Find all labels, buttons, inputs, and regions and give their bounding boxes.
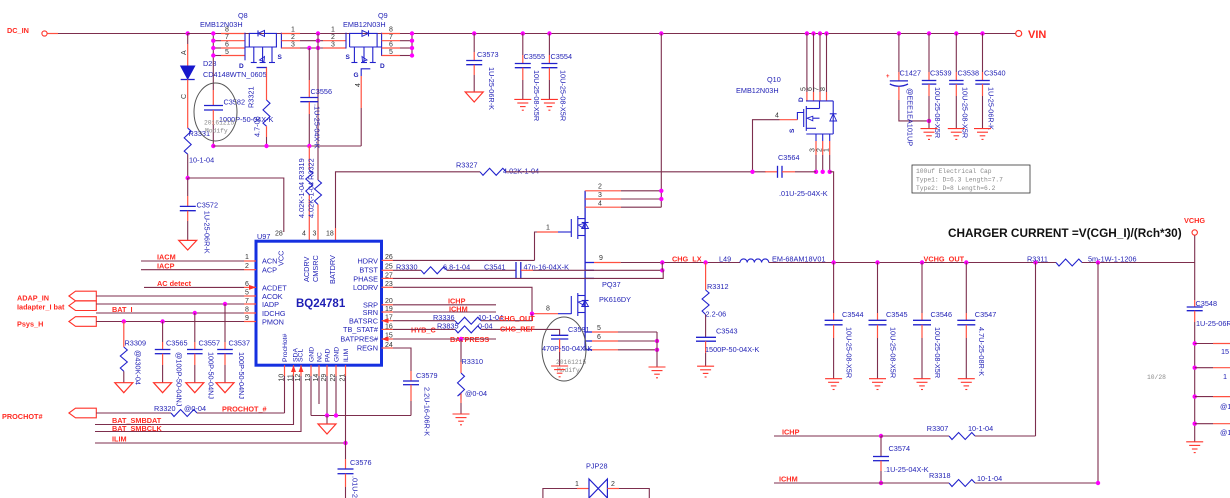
svg-text:7: 7 (389, 34, 393, 41)
svg-text:5: 5 (225, 49, 229, 56)
svg-text:C3564: C3564 (778, 153, 800, 162)
Q9 symbol body (350, 33, 362, 47)
ground under C3540 (974, 129, 991, 140)
svg-text:+: + (886, 74, 890, 80)
svg-text:BTST: BTST (359, 266, 378, 275)
svg-text:2: 2 (291, 34, 295, 41)
svg-text:C3540: C3540 (984, 69, 1006, 78)
PQ37 common blue bus (584, 191, 586, 350)
resistor R3321 4.7-06 (247, 86, 271, 146)
node BAT_I net (96, 305, 244, 314)
svg-text:NC: NC (317, 352, 324, 362)
PQ37 pin 8 (lower gate) (532, 313, 558, 315)
svg-text:.01U-25-: .01U-25- (351, 476, 360, 498)
capacitor C3582 1000P-50-04X-K (194, 56, 273, 147)
Q10 source bracket (806, 133, 833, 135)
svg-text:VCC: VCC (277, 251, 286, 266)
capacitor C3556 .1U-25-04X-K (300, 46, 332, 149)
svg-text:HDRV: HDRV (357, 256, 378, 265)
svg-text:8: 8 (546, 306, 550, 313)
svg-text:IACM: IACM (157, 253, 176, 262)
svg-text:CMSRC: CMSRC (311, 255, 320, 282)
svg-text:1: 1 (245, 254, 249, 261)
svg-text:4.7U-25-08R-K: 4.7U-25-08R-K (977, 327, 986, 376)
Q8 right bracket rows 1,2,3 (280, 33, 282, 49)
capacitor C3574 .1U-25-04X-K (873, 436, 929, 485)
PQ37 pin row 2 (585, 190, 621, 192)
wire PHASE link row (585, 277, 594, 279)
node C3556 / R3319 junction (307, 144, 311, 148)
ground under C3565 (154, 383, 172, 393)
svg-text:EMB12N03H: EMB12N03H (343, 20, 386, 29)
resistor R3331 10-1-04 (184, 128, 214, 178)
ground under C3545 (869, 379, 886, 390)
ground under C3547 (958, 379, 975, 390)
node IACM net (141, 253, 244, 262)
capacitor C3565 @100P-50-04NJ (155, 319, 188, 407)
svg-text:PHASE: PHASE (353, 274, 378, 283)
svg-text:Q9: Q9 (378, 11, 388, 20)
svg-text:10U-25-08-X5R: 10U-25-08-X5R (933, 327, 942, 378)
resistor R3327 4.02K-1-04 (456, 161, 539, 176)
svg-text:1: 1 (1223, 372, 1227, 381)
svg-text:20161215: 20161215 (556, 359, 586, 366)
svg-text:C3543: C3543 (716, 327, 738, 336)
svg-text:3: 3 (598, 192, 602, 199)
svg-text:PROCHOT#: PROCHOT# (2, 412, 43, 421)
resistor R3319 4.02K-1-04 (ACDRV) (297, 146, 313, 241)
svg-text:LODRV: LODRV (353, 283, 378, 292)
svg-text:1: 1 (331, 27, 335, 34)
svg-text:7: 7 (225, 34, 229, 41)
wire VCHG branch stubs (1193, 341, 1230, 437)
svg-text:2: 2 (331, 34, 335, 41)
wire HDRV to PQ37 gate (393, 259, 535, 261)
node ILIM net (95, 376, 348, 445)
svg-text:26: 26 (385, 254, 393, 261)
svg-text:PQ37: PQ37 (602, 280, 621, 289)
svg-text:10U-25-08-X5R: 10U-25-08-X5R (888, 327, 897, 378)
svg-text:L49: L49 (719, 255, 731, 264)
op-amp U97 BQ24781 controller (244, 231, 393, 405)
svg-text:2.2U-16-06R-K: 2.2U-16-06R-K (423, 387, 432, 436)
svg-text:@EEE1EA101UP: @EEE1EA101UP (906, 88, 915, 146)
svg-text:2: 2 (598, 184, 602, 191)
capacitor C3579 2.2U-16-06R-K (REGN) (393, 348, 438, 436)
svg-text:Q8: Q8 (238, 11, 248, 20)
ground under C3581 (551, 366, 568, 377)
capacitor C1427 EEE1EA101UP (polarized) (886, 31, 931, 146)
svg-text:C3557: C3557 (199, 339, 221, 348)
Q10 drain pins 5,6,7,8 (805, 31, 809, 35)
svg-text:Iadapter_I bat: Iadapter_I bat (17, 303, 65, 312)
capacitor C3541 47n-16-04X-K (484, 262, 594, 279)
svg-text:C3538: C3538 (958, 69, 980, 78)
node DC_IN terminal (7, 26, 58, 36)
svg-text:BATSRC: BATSRC (349, 316, 378, 325)
capacitor C3564 .01U-25-04X-K (765, 153, 828, 198)
svg-text:C3544: C3544 (842, 310, 864, 319)
PQ37 pin row 5 (585, 331, 592, 333)
svg-text:C3555: C3555 (524, 52, 546, 61)
svg-text:@0-04: @0-04 (184, 404, 206, 413)
node rows 1,2,3 tie (CMSRC column) (316, 31, 320, 180)
svg-text:1: 1 (546, 225, 550, 232)
BQ24781 right pin stubs (382, 259, 394, 261)
svg-text:GND: GND (309, 347, 316, 362)
jumper PJP28 (543, 462, 649, 498)
svg-text:18: 18 (326, 231, 334, 238)
ground under C3538 (948, 129, 965, 140)
svg-text:R3327: R3327 (456, 161, 478, 170)
svg-text:@1: @1 (1220, 402, 1230, 411)
node Psys_H port (17, 317, 244, 329)
ground under C3537 (216, 383, 234, 393)
svg-text:1U-25-06R-K: 1U-25-06R-K (203, 211, 212, 254)
node ADAP_IN port (17, 291, 244, 302)
wire CHG_LX to VCHG rail (769, 262, 1056, 264)
svg-text:2: 2 (611, 481, 615, 488)
node ICHM net (SRN) (393, 304, 496, 313)
svg-text:Modify: Modify (205, 128, 228, 135)
Q8 gate lead (257, 67, 268, 69)
svg-text:EMB12N03H: EMB12N03H (736, 86, 779, 95)
BQ24781 left pin stubs (244, 260, 256, 262)
Q8 left pin rows 8,7,6,5 (188, 33, 221, 35)
svg-text:D28: D28 (203, 59, 216, 68)
node ICHP sense net (774, 428, 949, 439)
svg-text:IACP: IACP (157, 261, 175, 270)
Q10 source pins 3,2,1 (815, 134, 817, 141)
capacitor C3540 1U-25-06R-K (975, 31, 1005, 130)
svg-text:10/28: 10/28 (1147, 374, 1166, 381)
svg-text:REGN: REGN (357, 344, 378, 353)
capacitor C3538 10U-25-08-X5R (949, 31, 979, 138)
svg-text:10U-25-08-X5R: 10U-25-08-X5R (960, 87, 969, 138)
diode D28 CD4148WTN_0605 (181, 50, 267, 99)
node C3582 bottom junction (211, 144, 215, 148)
svg-text:2.2-06: 2.2-06 (706, 310, 727, 319)
Q10 top bracket (806, 100, 833, 102)
svg-text:R3312: R3312 (707, 282, 729, 291)
PQ37 upper FET symbol (570, 219, 572, 237)
inductor L49 EM-68AM18V01 (719, 255, 826, 264)
svg-text:10U-25-08-X5R: 10U-25-08-X5R (532, 70, 541, 121)
ground under C3573 (465, 92, 483, 102)
transistor Q9 EMB12N03H (dual FET half, mirrored) (323, 11, 414, 146)
resistor R3336 10-1-04 (BATSRC/CHG_OUT) (393, 313, 535, 324)
capacitor C3546 10U-25-08-X5R (913, 260, 952, 378)
svg-text:Type1: D=6.3 Length=7.7: Type1: D=6.3 Length=7.7 (916, 177, 1003, 184)
svg-text:S: S (278, 54, 283, 61)
svg-text:VIN: VIN (1028, 29, 1046, 41)
svg-text:C3548: C3548 (1196, 299, 1218, 308)
capacitor C3581 470P-50-04X-K (542, 317, 592, 381)
transistor Q10 EMB12N03H (736, 31, 837, 174)
svg-text:4.02K-1-04 R3319: 4.02K-1-04 R3319 (297, 158, 306, 218)
Q9 left pin rows 1,2,3 (323, 40, 346, 42)
node IACP net (141, 261, 244, 270)
svg-text:@1: @1 (1220, 428, 1230, 437)
svg-text:R3330: R3330 (396, 263, 418, 272)
wire BATDRV rail to Q10 (506, 171, 765, 173)
wire VIN top rail (58, 33, 1016, 35)
resistor R3309 @430K-04 (120, 319, 146, 385)
svg-text:ACP: ACP (262, 265, 277, 274)
PQ37 lower FET symbol (570, 296, 572, 314)
capacitor C3539 10U-25-08-X5R (922, 31, 952, 138)
svg-text:6: 6 (225, 41, 229, 48)
svg-text:25: 25 (385, 263, 393, 270)
svg-text:CHARGER CURRENT =V(CGH_I)/(Rch: CHARGER CURRENT =V(CGH_I)/(Rch*30) (948, 226, 1182, 240)
svg-text:10U-25-08-X5R: 10U-25-08-X5R (559, 70, 568, 121)
svg-text:PAD: PAD (325, 348, 332, 362)
capacitor C3548 1U-25-06R (1187, 263, 1230, 442)
svg-text:BATDRV: BATDRV (328, 255, 337, 284)
svg-text:C1427: C1427 (900, 69, 922, 78)
svg-text:R3318: R3318 (929, 471, 951, 480)
svg-text:@0-04: @0-04 (465, 389, 487, 398)
svg-text:4.7-06: 4.7-06 (253, 116, 262, 137)
svg-text:C3537: C3537 (229, 339, 251, 348)
svg-text:C3565: C3565 (166, 339, 188, 348)
Q9 right bracket rows 8,7,6,5 (381, 33, 383, 56)
svg-text:C3579: C3579 (416, 371, 438, 380)
svg-text:.1U-25-04X-K: .1U-25-04X-K (884, 465, 929, 474)
svg-text:5: 5 (597, 325, 601, 332)
svg-text:4: 4 (355, 83, 362, 87)
capacitor C3547 4.7U-25-08R-K (957, 260, 996, 378)
svg-text:100P-50-04NJ: 100P-50-04NJ (207, 352, 216, 399)
ground under VCHG column (1186, 442, 1203, 453)
ground under R3310 (453, 414, 470, 425)
svg-text:C3572: C3572 (197, 201, 219, 210)
svg-text:U97: U97 (257, 232, 270, 241)
svg-text:8: 8 (389, 27, 393, 34)
svg-text:1: 1 (291, 27, 295, 34)
wire BTST link row (585, 269, 594, 271)
svg-text:ICHM: ICHM (779, 475, 798, 484)
svg-text:C3541: C3541 (484, 263, 506, 272)
Q10 gate pin 4 lead (797, 113, 803, 120)
PQ37 pin row 7 (585, 349, 592, 351)
svg-text:C3573: C3573 (477, 50, 499, 59)
svg-text:.01U-25-04X-K: .01U-25-04X-K (779, 189, 828, 198)
svg-text:3: 3 (331, 41, 335, 48)
svg-text:6: 6 (597, 334, 601, 341)
svg-text:5: 5 (389, 49, 393, 56)
resistor R3322 4.02K-1-04 (CMSRC) (307, 158, 322, 241)
svg-text:VCHG_OUT: VCHG_OUT (924, 255, 965, 264)
BQ24781 bottom pin stubs (284, 365, 286, 376)
node ICHP net (SRP) (393, 297, 496, 306)
wire VCC feed to pin 28 (188, 178, 284, 232)
svg-text:D: D (239, 63, 244, 70)
svg-text:C3545: C3545 (886, 310, 908, 319)
svg-text:CHG_LX: CHG_LX (672, 255, 702, 264)
svg-text:47n-16-04X-K: 47n-16-04X-K (524, 263, 570, 272)
node AC detect net (144, 279, 244, 288)
capacitor C3572 1U-25-06R-K (180, 178, 218, 254)
resistor R3307 10-1-04 (927, 424, 1036, 440)
svg-text:4.02K-1-04: 4.02K-1-04 (503, 166, 539, 175)
svg-text:TB_STAT#: TB_STAT# (343, 325, 379, 334)
svg-text:8: 8 (820, 87, 827, 91)
PQ37 pin row 6 (585, 340, 592, 342)
ground under C3572 (179, 240, 197, 250)
svg-text:C3546: C3546 (931, 310, 953, 319)
svg-text:6: 6 (389, 41, 393, 48)
capacitor C3576 .01U-25-04X-K (338, 443, 372, 498)
svg-text:C3581: C3581 (568, 325, 590, 334)
svg-text:PMON: PMON (262, 317, 284, 326)
svg-text:C3574: C3574 (889, 444, 911, 453)
svg-text:20161215: 20161215 (204, 120, 234, 127)
svg-text:15: 15 (1221, 347, 1229, 356)
svg-text:470P-50-04X-K: 470P-50-04X-K (542, 344, 592, 353)
svg-text:@100P-50-04NJ: @100P-50-04NJ (175, 352, 184, 407)
svg-text:2: 2 (816, 148, 823, 152)
svg-text:1: 1 (823, 148, 830, 152)
svg-text:R3309: R3309 (125, 339, 147, 348)
svg-text:10-1-04: 10-1-04 (189, 156, 214, 165)
resistor R3835 0-04 (TB_STAT#/CHG_REF) (393, 322, 547, 335)
resistor R3312 2.2-06 (702, 263, 728, 338)
svg-text:ADAP_IN: ADAP_IN (17, 294, 49, 303)
node BATPRESS net (393, 335, 496, 344)
ground under C3544 (825, 379, 842, 390)
PQ37 pin row 3 (585, 198, 621, 200)
svg-text:100uf Electrical Cap: 100uf Electrical Cap (916, 168, 992, 175)
ground under C3546 (914, 379, 931, 390)
svg-text:R3321: R3321 (247, 86, 256, 108)
node VCHG terminal (1184, 216, 1205, 263)
svg-text:Psys_H: Psys_H (17, 320, 43, 329)
svg-text:4.02K-1-04 R3322: 4.02K-1-04 R3322 (307, 158, 316, 218)
wire ICHP sense drop (1033, 260, 1037, 436)
ground under C3554 (541, 99, 558, 110)
ground under PQ37 source (649, 367, 666, 378)
svg-text:ACDRV: ACDRV (302, 256, 311, 282)
transistor Q8 EMB12N03H (dual FET half) (188, 11, 323, 100)
svg-text:R3336: R3336 (433, 313, 455, 322)
resistor R3311 5m-1W-1-1206 (1027, 255, 1195, 267)
node PROCHOT# port (2, 408, 171, 421)
ground under C3557 (186, 383, 204, 393)
ground under C3543 (697, 366, 714, 377)
svg-text:C3539: C3539 (930, 69, 952, 78)
capacitor C3573 1U-25-06R-K (466, 31, 498, 110)
svg-text:1U-25-06R-K: 1U-25-06R-K (487, 67, 496, 110)
svg-text:C3547: C3547 (975, 310, 997, 319)
svg-text:4: 4 (302, 231, 306, 238)
wire D28 cathode to R3331 (187, 80, 189, 129)
resistor R3320 @0-04 (154, 376, 285, 417)
ground under C3555 (514, 99, 531, 110)
node Iadapter_I bat port (17, 301, 244, 312)
svg-text:C3576: C3576 (350, 458, 372, 467)
svg-text:.1U-25-04X-K: .1U-25-04X-K (313, 104, 322, 149)
resistor R3318 10-1-04 (929, 471, 1100, 487)
svg-text:Type2: D=8 Length=6.2: Type2: D=8 Length=6.2 (916, 185, 996, 192)
resistor R3330 6.8-1-04 (BTST) (393, 263, 516, 274)
Q10 FET symbol (803, 109, 805, 127)
capacitor C3557 100P-50-04NJ (187, 311, 220, 400)
svg-text:ProcHot#: ProcHot# (282, 333, 289, 362)
svg-text:1U-25-06R: 1U-25-06R (1196, 319, 1230, 328)
ground under C3539 (921, 129, 938, 140)
svg-text:DC_IN: DC_IN (7, 26, 29, 35)
svg-text:D: D (798, 97, 805, 102)
svg-text:C: C (181, 94, 188, 99)
svg-text:D: D (380, 63, 385, 70)
svg-text:4: 4 (598, 200, 602, 207)
svg-text:CD4148WTN_0605: CD4148WTN_0605 (203, 70, 267, 79)
svg-text:C3556: C3556 (311, 87, 333, 96)
capacitor C3543 1500P-50-04X-K (696, 327, 759, 367)
svg-text:10U-25-08-X5R: 10U-25-08-X5R (844, 327, 853, 378)
svg-text:G: G (354, 72, 359, 79)
svg-text:10-1-04: 10-1-04 (968, 424, 993, 433)
svg-text:VCHG: VCHG (1184, 216, 1205, 225)
svg-text:PROCHOT_#: PROCHOT_# (222, 405, 267, 414)
svg-text:1500P-50-04X-K: 1500P-50-04X-K (705, 345, 759, 354)
wire D28 anode drop (186, 31, 190, 66)
svg-text:ACN: ACN (262, 257, 277, 266)
svg-text:PJP28: PJP28 (586, 462, 608, 471)
svg-text:SCL: SCL (298, 349, 305, 362)
resistor R3310 @0-04 (458, 339, 488, 414)
svg-text:10-1-04: 10-1-04 (977, 474, 1002, 483)
PQ37 pin 1 (upper gate) from HDRV (535, 232, 538, 260)
svg-text:BATPRES#: BATPRES# (340, 335, 379, 344)
wire gate rail y=146 (213, 145, 361, 147)
ground under chip (326, 416, 328, 425)
capacitor C3554 10U-25-08-X5R (541, 31, 572, 121)
svg-text:2: 2 (245, 263, 249, 270)
node ICHM sense net (774, 475, 949, 484)
svg-text:R3320: R3320 (154, 404, 176, 413)
wire ICHM sense drop (1096, 260, 1100, 483)
svg-text:3: 3 (291, 41, 295, 48)
node BAT_SMBDAT net (95, 376, 294, 425)
svg-text:IADP: IADP (262, 300, 279, 309)
PQ37 pin 9 (source/CHG_LX) (585, 262, 594, 264)
wire BATDRV riser (336, 172, 481, 241)
node BAT_SMBCLK net (95, 376, 301, 433)
svg-text:10U-25-08-X5R: 10U-25-08-X5R (933, 87, 942, 138)
svg-text:ILIM: ILIM (112, 435, 127, 444)
svg-text:CHG_REF: CHG_REF (500, 324, 535, 333)
wire PQ37 drain drop from VIN rail (659, 31, 663, 207)
capacitor C3545 10U-25-08-X5R (869, 260, 908, 378)
svg-text:8: 8 (225, 27, 229, 34)
node R3321 bottom junction (264, 144, 268, 148)
wire GND rail under chip (311, 376, 411, 418)
svg-text:R3310: R3310 (462, 357, 484, 366)
svg-text:ICHP: ICHP (782, 428, 800, 437)
svg-text:4: 4 (775, 113, 779, 120)
Q9 gate lead pin 4 (361, 69, 370, 76)
svg-text:Q10: Q10 (767, 75, 781, 84)
svg-text:S: S (346, 54, 351, 61)
wire PHASE to PQ37 (393, 277, 594, 279)
svg-text:ILIM: ILIM (343, 348, 350, 362)
Q8 symbol body (244, 33, 246, 61)
capacitor C3544 10U-25-08-X5R (825, 263, 864, 379)
svg-text:9: 9 (599, 255, 603, 262)
svg-text:R3307: R3307 (927, 424, 949, 433)
